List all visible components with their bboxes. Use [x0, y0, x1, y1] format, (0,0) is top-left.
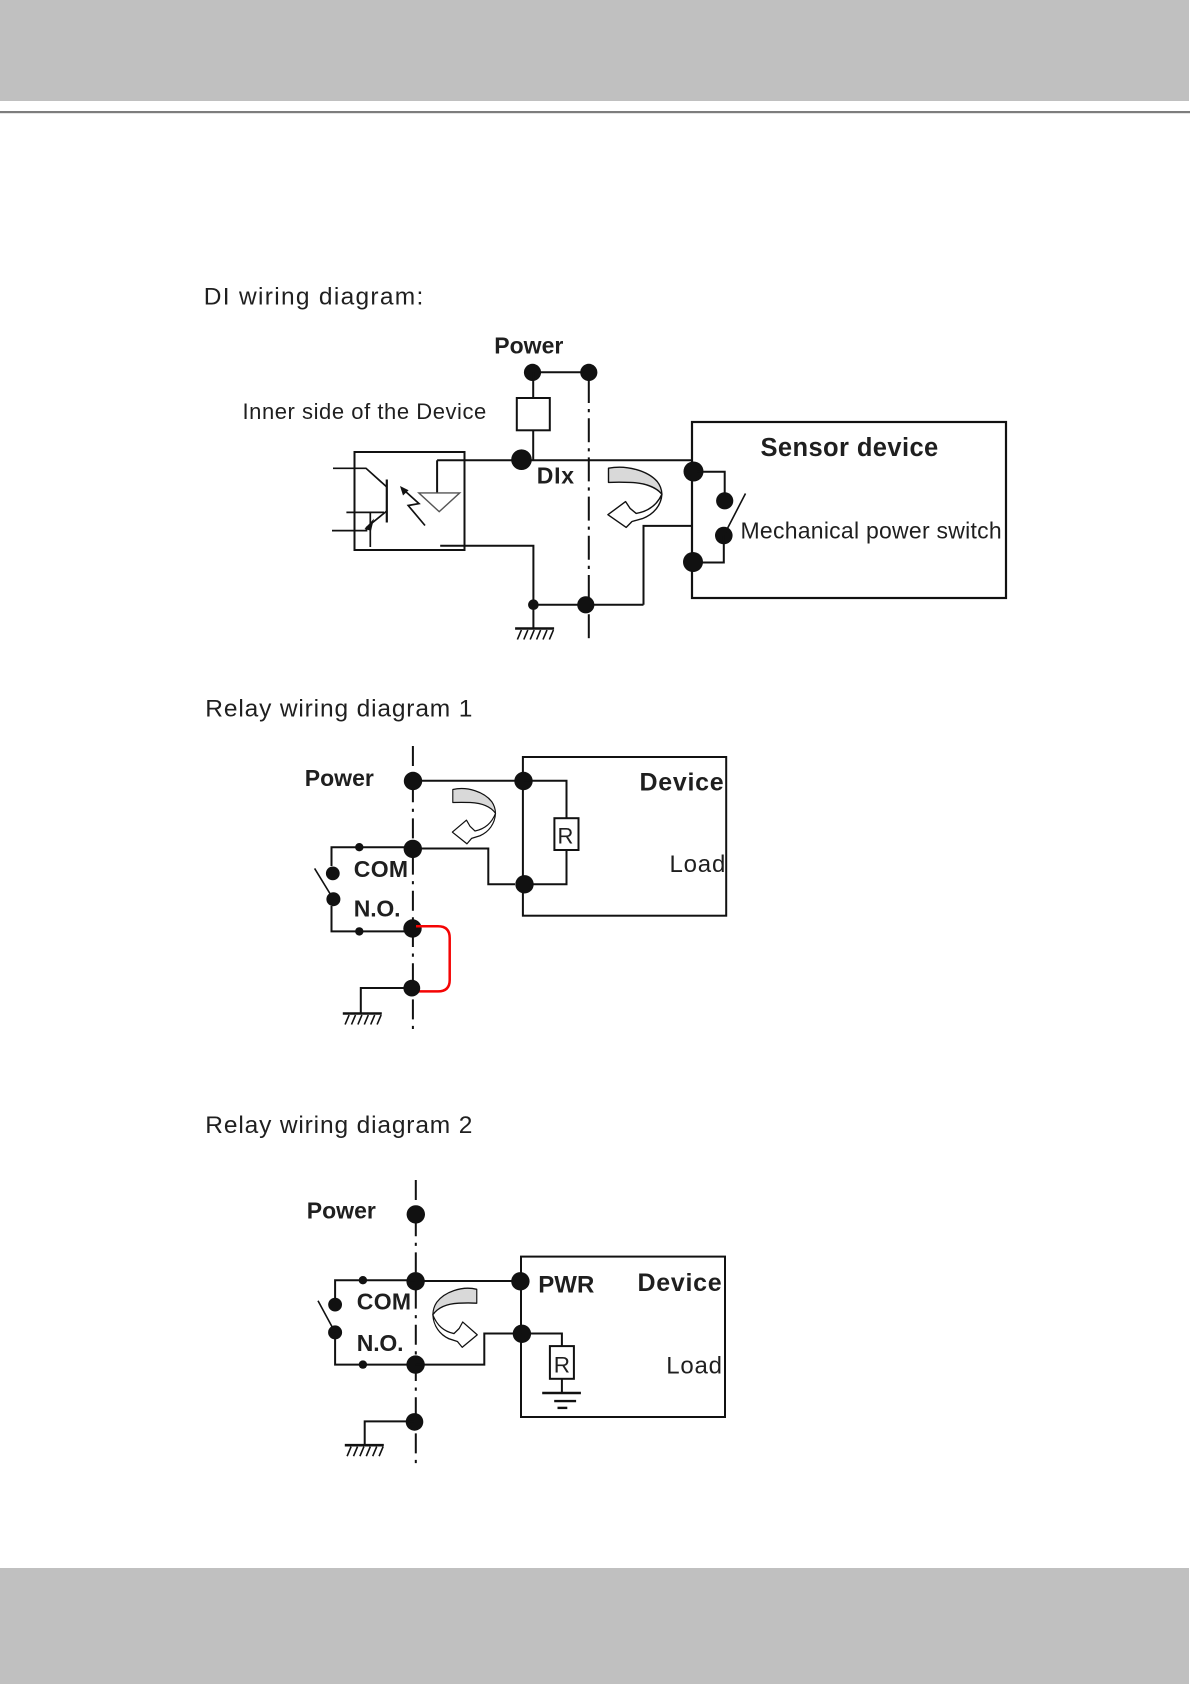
- node device return (relay1): [515, 875, 533, 893]
- node COM junction (relay1): [404, 840, 422, 858]
- device box (relay1): [523, 757, 726, 916]
- earth ground (relay2): [542, 1393, 581, 1408]
- node power left: [524, 364, 541, 381]
- svg-text:Mechanical power switch: Mechanical power switch: [741, 518, 1002, 544]
- svg-text:Power: Power: [307, 1197, 376, 1223]
- node power (relay1): [404, 772, 422, 790]
- wire switch bottom: [697, 536, 724, 563]
- footer band: [0, 1568, 1189, 1684]
- header band: [0, 0, 1189, 101]
- optocoupler light arrow: [405, 491, 425, 526]
- node DIx junction: [511, 449, 532, 470]
- node sensor bottom: [683, 552, 703, 572]
- load resistor R (relay2): [550, 1346, 574, 1379]
- header divider rule: [0, 111, 1190, 113]
- swirl arrow (DI): [608, 467, 662, 527]
- node small bottom lead: [355, 927, 363, 935]
- node device PWR (relay1): [514, 772, 532, 790]
- optocoupler base lead: [346, 511, 384, 513]
- optocoupler emitter lead: [332, 511, 387, 531]
- relay contact N.O. (relay2): [328, 1325, 342, 1339]
- svg-text:Sensor device: Sensor device: [761, 434, 939, 462]
- node ground (relay2): [406, 1413, 424, 1431]
- svg-text:Power: Power: [305, 765, 374, 791]
- ground stem (DI): [532, 605, 534, 629]
- wire to load resistor top: [524, 781, 567, 819]
- node power (relay2): [407, 1205, 425, 1223]
- boundary dash-dot line (relay2): [415, 1180, 417, 1464]
- wire load resistor bottom: [524, 850, 567, 884]
- svg-text:COM: COM: [357, 1289, 412, 1315]
- wire N.O. to device load: [416, 1334, 521, 1365]
- optocoupler box: [355, 452, 465, 550]
- device box (relay2): [521, 1257, 725, 1417]
- svg-text:PWR: PWR: [538, 1272, 594, 1299]
- node COM junction (relay2): [406, 1272, 424, 1290]
- node ground junction: [528, 599, 539, 610]
- load resistor R (relay1): [554, 818, 578, 850]
- node boundary ground: [577, 596, 594, 613]
- optocoupler base-down wire: [369, 512, 371, 547]
- relay blade (relay2): [318, 1301, 335, 1333]
- sensor device box: [692, 422, 1006, 598]
- node sensor top: [684, 462, 704, 482]
- svg-text:R: R: [554, 1353, 570, 1378]
- wire power to resistor: [532, 372, 534, 399]
- optocoupler phototransistor bar: [386, 480, 388, 523]
- svg-text:Relay wiring diagram 2: Relay wiring diagram 2: [205, 1112, 473, 1139]
- ground symbol (DI): [515, 629, 554, 640]
- wire to ground (relay2): [365, 1421, 415, 1445]
- boundary dash-dot line (relay1): [412, 746, 414, 1029]
- node small bottom lead (relay2): [359, 1360, 367, 1368]
- relay contact COM: [326, 867, 340, 881]
- svg-text:DI wiring diagram:: DI wiring diagram:: [204, 284, 425, 311]
- relay blade: [315, 868, 334, 899]
- svg-text:DIx: DIx: [537, 462, 575, 488]
- svg-text:COM: COM: [354, 856, 409, 882]
- red jumper wire: [416, 926, 450, 991]
- wire optocoupler cathode out: [440, 546, 533, 605]
- svg-text:Device: Device: [638, 1269, 723, 1297]
- swirl arrow (relay2, mirrored): [433, 1288, 477, 1347]
- optocoupler light arrowhead: [400, 486, 409, 496]
- wire COM to PWR: [416, 1280, 521, 1282]
- wire switch top: [697, 472, 725, 495]
- wire power to device: [413, 780, 524, 782]
- node device PWR (relay2): [511, 1272, 529, 1290]
- svg-text:N.O.: N.O.: [354, 895, 400, 921]
- resistor (pull-up): [517, 398, 550, 430]
- switch contact bottom: [715, 527, 733, 545]
- boundary dash-dot line (DI): [588, 379, 590, 643]
- optocoupler LED anode wire: [436, 460, 438, 493]
- node small top lead: [355, 843, 363, 851]
- swirl arrow (relay1): [452, 789, 495, 844]
- switch contact top: [716, 492, 733, 509]
- optocoupler emitter arrowhead: [365, 519, 375, 531]
- node N.O. junction (relay1): [403, 919, 421, 937]
- node power right (boundary): [580, 364, 597, 381]
- svg-text:Load: Load: [666, 1353, 723, 1380]
- svg-text:Relay wiring diagram 1: Relay wiring diagram 1: [205, 696, 473, 723]
- relay contact N.O.: [326, 892, 340, 906]
- wire resistor to earth: [561, 1379, 563, 1393]
- ground symbol (relay1): [343, 1014, 382, 1025]
- relay contact COM (relay2): [328, 1298, 342, 1312]
- wire to ground (relay1): [361, 988, 412, 1014]
- wire power rail: [533, 371, 589, 373]
- node ground (relay1): [403, 980, 420, 997]
- wire relay bottom lead (relay2): [335, 1339, 408, 1365]
- wire DIx horizontal: [437, 459, 692, 461]
- wire relay top lead: [332, 847, 413, 866]
- svg-text:R: R: [558, 824, 574, 849]
- optocoupler LED triangle: [419, 493, 460, 512]
- svg-text:N.O.: N.O.: [357, 1330, 403, 1356]
- wire relay bottom lead: [332, 906, 406, 931]
- ground symbol (relay2): [345, 1445, 384, 1456]
- wire COM to device return: [413, 849, 515, 885]
- node device load (relay2): [513, 1325, 531, 1343]
- node N.O. junction (relay2): [406, 1355, 424, 1373]
- wire resistor to DIx node: [532, 430, 534, 460]
- wire ground bus: [533, 604, 643, 606]
- wire to sensor device: [644, 526, 693, 605]
- node small top lead (relay2): [359, 1276, 367, 1284]
- svg-text:Device: Device: [640, 768, 725, 796]
- svg-text:Inner side of the Device: Inner side of the Device: [243, 399, 487, 424]
- wire relay top lead (relay2): [335, 1280, 415, 1298]
- svg-text:Load: Load: [670, 851, 727, 878]
- optocoupler collector lead: [333, 468, 387, 487]
- switch blade: [724, 494, 746, 536]
- svg-text:Power: Power: [494, 332, 563, 358]
- wire to load resistor (relay2): [522, 1334, 562, 1347]
